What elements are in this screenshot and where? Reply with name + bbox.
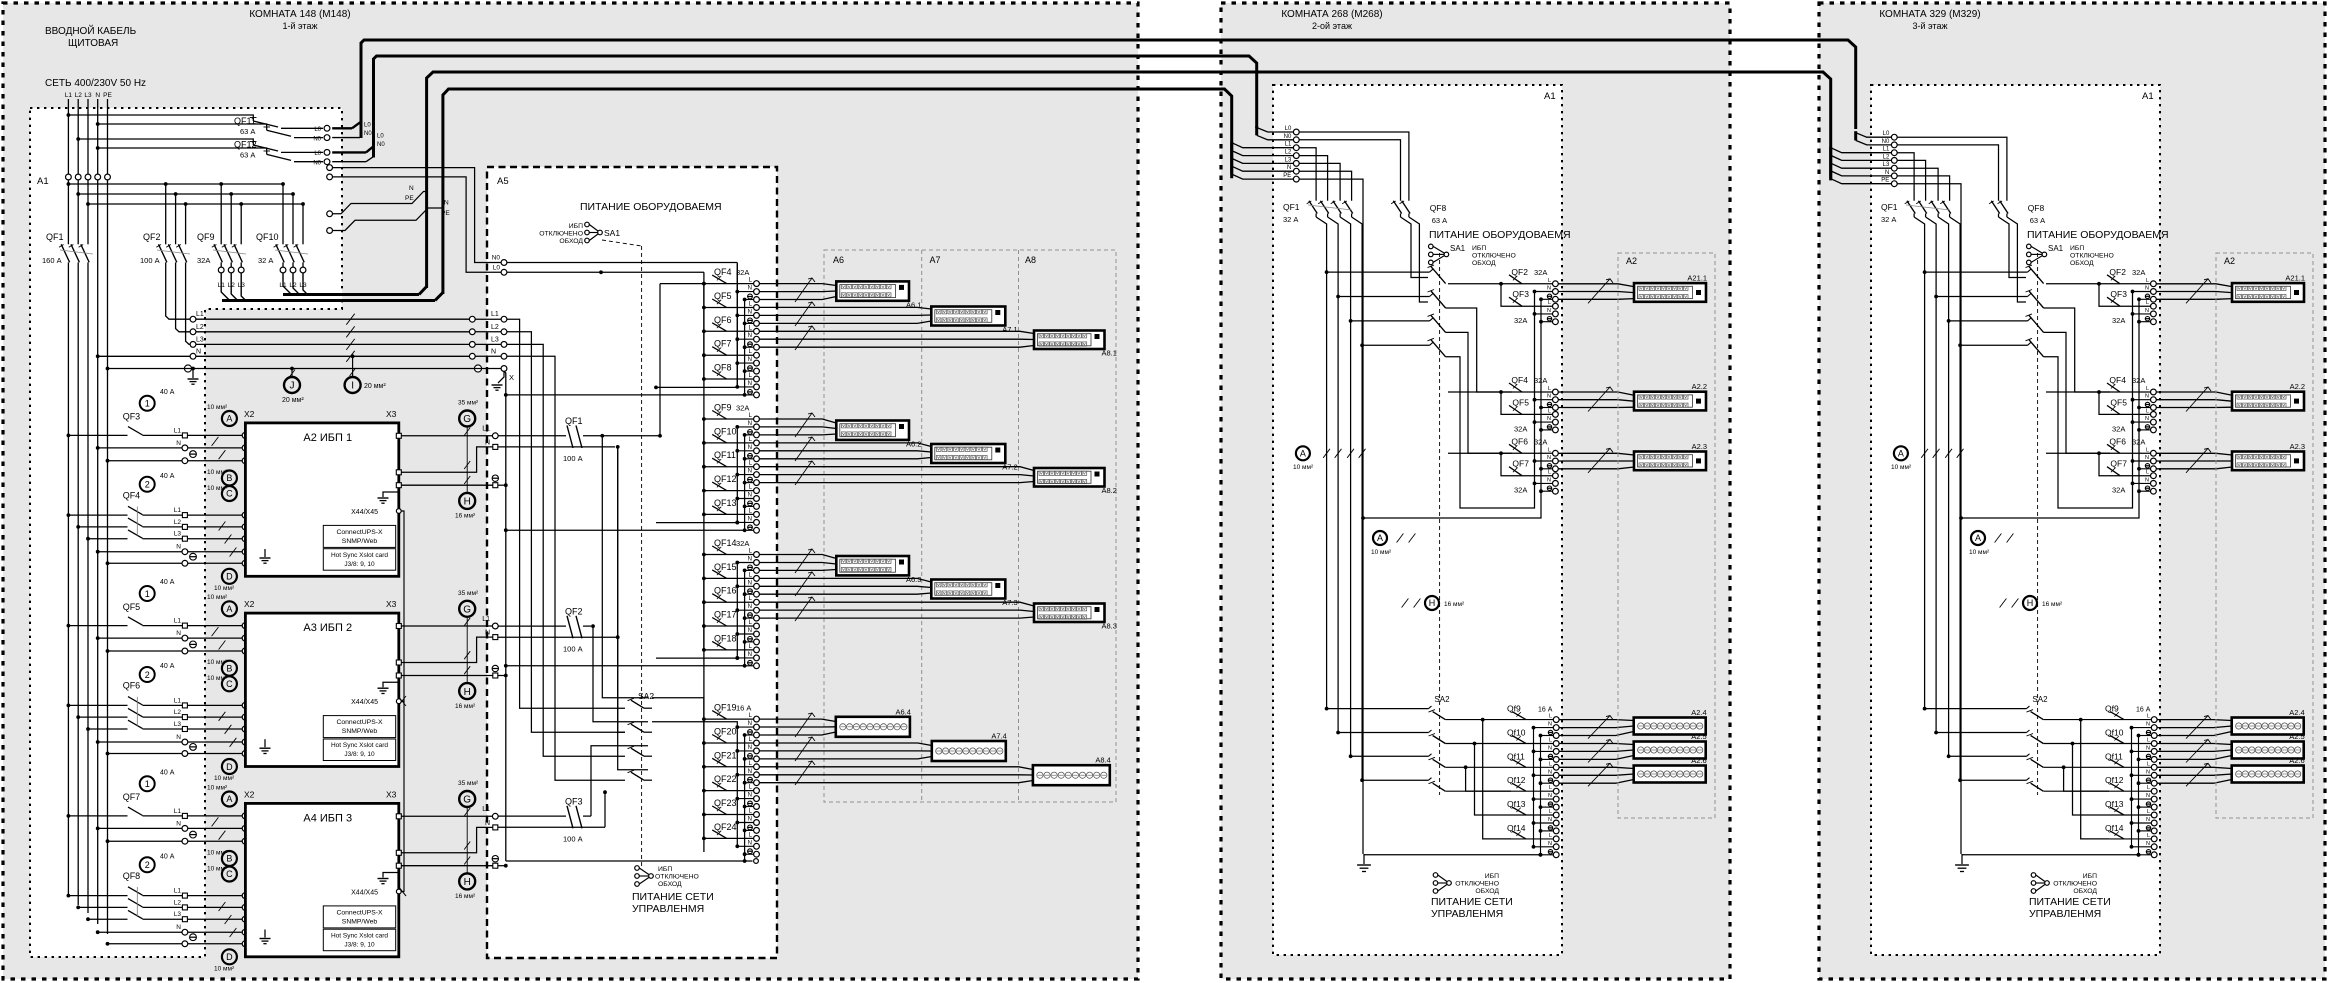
svg-text:160 А: 160 А [42, 256, 62, 265]
cable circle D group3 [222, 949, 237, 964]
cable circle B group3 [222, 851, 237, 866]
svg-text:N: N [748, 793, 752, 799]
svg-text:L1: L1 [1883, 147, 1890, 153]
cable circle D group1 [222, 569, 237, 584]
svg-text:L2: L2 [174, 899, 182, 906]
svg-text:QF6: QF6 [1511, 436, 1528, 446]
svg-text:QF13: QF13 [714, 498, 737, 508]
SA2 outputs to control group bus [652, 698, 704, 719]
svg-text:QF9: QF9 [197, 232, 215, 242]
svg-text:G: G [463, 795, 471, 806]
svg-text:1: 1 [145, 779, 150, 789]
N/PE bus stitches between groups [656, 386, 737, 388]
svg-text:63 А: 63 А [240, 127, 255, 136]
svg-text:N0: N0 [1882, 139, 1890, 145]
bus PE to A5 [108, 368, 185, 370]
svg-text:QF3: QF3 [2110, 289, 2127, 299]
room329 spare feeders from SA2 outputs [2064, 767, 2109, 791]
svg-text:16 А: 16 А [2136, 707, 2151, 714]
svg-text:2: 2 [145, 670, 150, 680]
svg-text:40 А: 40 А [160, 389, 175, 396]
room268 strips wires group1 [1558, 284, 1634, 287]
svg-text:10 мм²: 10 мм² [207, 594, 228, 601]
svg-text:В: В [226, 854, 232, 864]
cable designator I [352, 356, 354, 377]
svg-text:A8: A8 [1025, 255, 1036, 265]
svg-text:2: 2 [145, 860, 150, 870]
wire cable pair QF11 to riser A [332, 127, 352, 129]
svg-text:N: N [748, 469, 752, 475]
svg-text:QF7: QF7 [714, 339, 732, 349]
svg-text:Hot Sync Xslot card: Hot Sync Xslot card [331, 552, 388, 559]
svg-text:D: D [226, 572, 233, 582]
svg-text:L2: L2 [1883, 154, 1890, 160]
svg-text:QF3: QF3 [123, 412, 141, 422]
svg-text:QF4: QF4 [123, 490, 141, 500]
svg-text:ConnectUPS-X: ConnectUPS-X [336, 910, 383, 917]
svg-text:N: N [748, 309, 752, 315]
svg-text:N: N [748, 421, 752, 427]
bus L3 to A5 [196, 343, 470, 345]
terminals N PE jog wires joining risers [327, 211, 333, 217]
svg-text:N: N [1547, 286, 1551, 292]
selector circle 1 group 1 [140, 396, 155, 411]
svg-text:32А: 32А [1534, 268, 1547, 277]
UPS unit A4 [245, 803, 398, 956]
svg-text:20 мм²: 20 мм² [282, 397, 304, 404]
thick cable riser B to room 268 L0 N0 [374, 56, 1257, 158]
terminals to A5 N0 L0 [327, 165, 333, 171]
room329 socket strip A2.6 [2232, 766, 2304, 783]
svg-text:QF2: QF2 [1511, 267, 1528, 277]
svg-text:QF5: QF5 [2110, 397, 2127, 407]
svg-text:N: N [1548, 841, 1552, 847]
svg-text:D: D [226, 762, 233, 772]
svg-text:N: N [485, 439, 490, 446]
wires QF19 to strip A6.4 [759, 719, 836, 721]
svg-text:QF12: QF12 [714, 474, 737, 484]
svg-text:L0: L0 [364, 123, 371, 129]
svg-text:С: С [226, 679, 233, 689]
svg-text:QF1: QF1 [1283, 202, 1300, 212]
svg-text:ОТКЛЮЧЕНО: ОТКЛЮЧЕНО [655, 874, 699, 881]
svg-text:A8.1: A8.1 [1102, 349, 1117, 358]
svg-text:N: N [748, 817, 752, 823]
room 268 cabinet outline [1221, 3, 1730, 979]
svg-text:УПРАВЛЕНМЯ: УПРАВЛЕНМЯ [1431, 908, 1503, 920]
svg-text:16 А: 16 А [1538, 707, 1553, 714]
svg-text:40 А: 40 А [160, 854, 175, 861]
svg-text:PE: PE [103, 92, 112, 99]
svg-text:N0: N0 [364, 131, 372, 137]
svg-text:D: D [226, 952, 233, 962]
svg-text:L0: L0 [314, 151, 321, 157]
svg-text:N: N [1547, 455, 1551, 461]
wire L1 through breaker to UPS [68, 815, 127, 817]
room329 socket strip A2.5 [2232, 742, 2304, 759]
svg-text:L: L [2146, 447, 2149, 453]
QF10 output terminals L1 L2 L3 [282, 262, 284, 267]
room329 control group Qf9-Qf14 [2131, 728, 2133, 847]
svg-text:L: L [2147, 714, 2150, 720]
svg-text:N: N [176, 820, 181, 827]
room329 panel A1 boundary [1871, 85, 2160, 955]
svg-text:L: L [2147, 738, 2150, 744]
svg-text:32 А: 32 А [1283, 215, 1298, 224]
room268 SA1 mechanical link [1439, 253, 1441, 795]
svg-text:N: N [95, 92, 100, 99]
svg-text:32А: 32А [2112, 424, 2125, 433]
svg-text:QF7: QF7 [2110, 459, 2127, 469]
mechanical link SA1-SA2 [641, 246, 643, 866]
svg-text:N: N [2146, 793, 2150, 799]
svg-text:QF18: QF18 [714, 633, 737, 643]
svg-text:QF4: QF4 [1511, 375, 1528, 385]
phase tap buses to QF2 QF9 QF10 [68, 183, 283, 185]
wires QF6 to strip A8.1 [759, 331, 1034, 333]
vertical feeders from terminals [67, 180, 69, 245]
svg-text:QF10: QF10 [256, 232, 279, 242]
room329 QF8 outputs to bypass side [1999, 217, 2027, 278]
svg-text:N: N [1548, 817, 1552, 823]
svg-text:N: N [2146, 722, 2150, 728]
UPS comm card labels [323, 906, 395, 928]
svg-text:A8.2: A8.2 [1102, 486, 1117, 495]
svg-text:N: N [1547, 394, 1551, 400]
svg-text:ИБП: ИБП [658, 866, 672, 873]
svg-text:N0: N0 [377, 142, 385, 148]
svg-text:10 мм²: 10 мм² [1969, 549, 1990, 556]
room268 QF1 output verticals [1316, 217, 1327, 709]
svg-text:ОТКЛЮЧЕНО: ОТКЛЮЧЕНО [1455, 881, 1499, 888]
svg-text:N: N [176, 544, 181, 551]
room329 strips wires group1 [2156, 284, 2232, 287]
svg-text:QF6: QF6 [714, 315, 732, 325]
selector circle 2 group 3 [140, 857, 155, 872]
room268 bypass indicator [1433, 873, 1438, 878]
svg-text:32А: 32А [736, 268, 749, 277]
wire L1 through breaker to UPS [68, 625, 127, 627]
svg-text:ЩИТОВАЯ: ЩИТОВАЯ [68, 38, 118, 49]
svg-text:N: N [409, 185, 414, 192]
svg-text:А2.4: А2.4 [2289, 708, 2304, 717]
QF1 output verticals down to UPS feeders [67, 272, 69, 897]
svg-text:L: L [1549, 738, 1552, 744]
svg-text:QF3: QF3 [1512, 289, 1529, 299]
svg-text:10 мм²: 10 мм² [207, 404, 228, 411]
svg-text:QF4: QF4 [714, 267, 732, 277]
socket strip A8.4 16A [1033, 765, 1110, 785]
svg-text:SNMP/Web: SNMP/Web [342, 919, 378, 926]
svg-text:ВВОДНОЙ КАБЕЛЬ: ВВОДНОЙ КАБЕЛЬ [45, 24, 137, 37]
thick cable riser A to room 329 L0 N0 [361, 40, 1856, 138]
svg-text:100 А: 100 А [563, 834, 583, 843]
svg-text:ОТКЛЮЧЕНО: ОТКЛЮЧЕНО [539, 231, 583, 238]
svg-text:А: А [226, 604, 232, 614]
svg-text:100 А: 100 А [140, 256, 160, 265]
cable circle D group2 [222, 759, 237, 774]
svg-text:N: N [748, 286, 752, 292]
svg-text:А7.4: А7.4 [991, 732, 1006, 741]
svg-text:ОБХОД: ОБХОД [2073, 888, 2097, 895]
socket strip A8.3 [1034, 604, 1105, 623]
svg-text:L1: L1 [1285, 142, 1292, 148]
room268 cable circle A 10mm [1296, 446, 1310, 460]
svg-text:L: L [1548, 470, 1551, 476]
svg-text:N: N [2145, 394, 2149, 400]
svg-text:40 А: 40 А [160, 579, 175, 586]
L0 wire to group feed bus [507, 271, 704, 273]
room329 PE ground line [1962, 854, 2139, 856]
svg-text:L: L [1549, 809, 1552, 815]
svg-text:А: А [1975, 533, 1981, 543]
svg-text:ОБХОД: ОБХОД [559, 238, 583, 245]
svg-text:N: N [2145, 308, 2149, 314]
cable circle H group2 [466, 617, 468, 683]
room 148 cabinet outline [3, 3, 1138, 979]
room268 spare feeders from SA2 outputs [1466, 767, 1511, 791]
svg-text:L3: L3 [174, 531, 182, 538]
svg-text:L0: L0 [377, 134, 384, 140]
svg-text:J3/8: 9, 10: J3/8: 9, 10 [344, 561, 375, 568]
svg-text:QF2: QF2 [565, 606, 583, 616]
svg-text:QF8: QF8 [1430, 203, 1447, 213]
room268 panel A1 boundary [1273, 85, 1562, 955]
svg-text:QF3: QF3 [565, 796, 583, 806]
svg-text:А2 ИБП 1: А2 ИБП 1 [303, 432, 352, 444]
svg-text:2-ой этаж: 2-ой этаж [1312, 21, 1352, 31]
svg-text:ПИТАНИЕ ОБОРУДОВАЕМЯ: ПИТАНИЕ ОБОРУДОВАЕМЯ [2027, 229, 2169, 241]
svg-text:63 А: 63 А [1432, 216, 1447, 225]
wires QF9 to strip A6.2 [759, 419, 836, 423]
cable circle B group2 [222, 661, 237, 676]
svg-text:QF8: QF8 [714, 363, 732, 373]
svg-text:N: N [748, 604, 752, 610]
svg-text:L: L [1548, 278, 1551, 284]
svg-text:L: L [2146, 408, 2149, 414]
svg-text:A21.1: A21.1 [1687, 274, 1707, 283]
room268 switch SA1 [1429, 244, 1434, 249]
svg-text:L: L [1549, 785, 1552, 791]
svg-text:N: N [2145, 416, 2149, 422]
svg-text:L1: L1 [174, 808, 182, 815]
svg-text:32А: 32А [1514, 486, 1527, 495]
svg-text:ОБХОД: ОБХОД [1472, 260, 1496, 267]
selector circle 2 group 2 [140, 667, 155, 682]
room268 QF8 outputs to bypass side [1401, 217, 1429, 278]
socket strip A6.3 [836, 556, 909, 575]
svg-text:ПИТАНИЕ ОБОРУДОВАЕМЯ: ПИТАНИЕ ОБОРУДОВАЕМЯ [1429, 229, 1571, 241]
UPS off bypass indicator bottom A5 [635, 866, 640, 871]
cable circle A group2 [222, 601, 237, 616]
cable slashes on bus [346, 314, 354, 325]
svg-text:32А: 32А [1514, 316, 1527, 325]
svg-text:QF5: QF5 [123, 602, 141, 612]
svg-text:N: N [748, 580, 752, 586]
room268 cable circle H 16mm [1425, 596, 1439, 610]
wire PE to UPS [108, 460, 243, 462]
svg-text:PE: PE [405, 195, 414, 202]
room329 cable circle A2 10mm [1971, 531, 1985, 545]
room268 N distribution bus [1446, 292, 1535, 509]
svg-text:A2: A2 [1626, 256, 1637, 266]
svg-text:32А: 32А [2112, 316, 2125, 325]
svg-text:SA1: SA1 [2048, 244, 2064, 253]
room268 socket strip A2.3 [1634, 452, 1706, 471]
svg-text:N: N [748, 445, 752, 451]
room268 feeds to QF4..QF7 [1446, 308, 1512, 392]
socket strip A6.1 [836, 281, 909, 300]
svg-text:32А: 32А [2132, 268, 2145, 277]
svg-text:QF10: QF10 [714, 426, 737, 436]
svg-text:А4 ИБП 3: А4 ИБП 3 [303, 813, 352, 825]
wire PE to UPS [108, 650, 243, 652]
svg-text:N: N [748, 333, 752, 339]
svg-text:N: N [1548, 769, 1552, 775]
UPS output N with jog [396, 470, 401, 475]
svg-text:N: N [2146, 817, 2150, 823]
svg-text:10 мм²: 10 мм² [1891, 464, 1912, 471]
svg-text:Qf13: Qf13 [2105, 799, 2124, 809]
svg-text:L1: L1 [482, 806, 490, 813]
ground at left end of PE bus [192, 369, 194, 379]
svg-text:L: L [1548, 447, 1551, 453]
svg-text:ИБП: ИБП [1485, 873, 1499, 880]
panel A5 boundary [487, 167, 777, 958]
thick cable riser C to room 329 mains [427, 72, 1831, 288]
svg-text:QF21: QF21 [714, 750, 737, 760]
svg-text:L0: L0 [1883, 131, 1890, 137]
svg-text:32А: 32А [2112, 486, 2125, 495]
socket strip A6.4 16A [836, 717, 910, 737]
svg-text:ИБП: ИБП [2083, 873, 2097, 880]
svg-text:QF22: QF22 [714, 774, 737, 784]
svg-text:10 мм²: 10 мм² [214, 775, 235, 782]
svg-text:N: N [748, 557, 752, 563]
svg-text:L0: L0 [493, 265, 501, 272]
svg-text:QF6: QF6 [2109, 436, 2126, 446]
svg-text:L1: L1 [491, 311, 499, 318]
svg-text:J: J [290, 381, 295, 392]
svg-text:L: L [2146, 300, 2149, 306]
UPS unit A3 [245, 613, 398, 766]
svg-text:ОБХОД: ОБХОД [2070, 260, 2094, 267]
svg-text:X44/X45: X44/X45 [351, 890, 378, 897]
svg-text:X3: X3 [386, 599, 397, 609]
socket strip A7.3 [931, 580, 1005, 599]
svg-text:N: N [748, 652, 752, 658]
svg-text:SNMP/Web: SNMP/Web [342, 538, 378, 545]
svg-text:16 А: 16 А [736, 704, 751, 713]
svg-text:N: N [485, 630, 490, 637]
svg-text:Qf11: Qf11 [2105, 751, 2123, 761]
svg-text:QF2: QF2 [2109, 267, 2126, 277]
UPS output PE [396, 483, 401, 488]
svg-text:40 А: 40 А [160, 663, 175, 670]
room268 socket strip A2.1 [1634, 283, 1706, 302]
svg-text:QF6: QF6 [123, 681, 141, 691]
cable circle C group3 [222, 867, 237, 882]
svg-text:QF14: QF14 [714, 538, 737, 548]
svg-text:L3: L3 [491, 337, 499, 344]
svg-text:X: X [509, 373, 514, 382]
svg-text:Н: Н [1429, 598, 1436, 608]
svg-text:Qf11: Qf11 [1507, 751, 1525, 761]
QF1 N feed vertical [498, 446, 615, 448]
svg-text:L1: L1 [174, 427, 182, 434]
svg-text:32А: 32А [736, 404, 749, 413]
svg-text:А: А [226, 414, 232, 424]
svg-text:А: А [1898, 449, 1904, 459]
svg-text:A2.2: A2.2 [1692, 382, 1707, 391]
bus L1 to A5 [196, 318, 470, 320]
QF2 outputs to A5 feed bus [166, 262, 193, 319]
svg-text:100 А: 100 А [563, 454, 583, 463]
svg-text:10 мм²: 10 мм² [207, 659, 228, 666]
wire PE to UPS [108, 840, 243, 842]
PE collector vertical [504, 371, 506, 861]
svg-text:Н: Н [464, 877, 471, 888]
bus N to A5 [98, 355, 191, 357]
svg-text:16 мм²: 16 мм² [455, 893, 476, 900]
svg-text:N: N [196, 349, 201, 356]
svg-text:N: N [176, 924, 181, 931]
room268 control group Qf9-Qf14 [1533, 728, 1535, 847]
room329 socket strip A2.3 [2232, 452, 2304, 471]
svg-text:L1: L1 [174, 697, 182, 704]
svg-text:N0: N0 [313, 161, 321, 167]
svg-text:L2: L2 [1285, 150, 1292, 156]
svg-text:Hot Sync Xslot card: Hot Sync Xslot card [331, 742, 388, 749]
svg-text:N: N [748, 381, 752, 387]
svg-text:10 мм²: 10 мм² [214, 966, 235, 973]
UPS ground stub [383, 678, 399, 687]
svg-text:32А: 32А [197, 256, 210, 265]
svg-text:L: L [1549, 714, 1552, 720]
wires QF20 to strip A7.4 [759, 743, 932, 746]
svg-text:32А: 32А [1514, 424, 1527, 433]
svg-text:В: В [226, 473, 232, 483]
svg-text:Qf10: Qf10 [1507, 728, 1526, 738]
svg-text:A5: A5 [497, 176, 509, 187]
wire L1 through breaker to UPS [68, 434, 127, 436]
room329 switch SA1 [2027, 244, 2032, 249]
svg-text:ОТКЛЮЧЕНО: ОТКЛЮЧЕНО [2070, 253, 2114, 260]
UPS output L1 [396, 433, 401, 438]
svg-text:L1: L1 [174, 888, 182, 895]
svg-text:100 А: 100 А [563, 644, 583, 653]
svg-text:L: L [2147, 809, 2150, 815]
svg-text:N: N [2145, 477, 2149, 483]
svg-text:N: N [444, 200, 449, 207]
svg-text:A21.1: A21.1 [2285, 274, 2305, 283]
room268 PE ground line [1364, 854, 1541, 856]
terminal N0 of A5 [501, 260, 507, 266]
svg-text:N: N [1287, 165, 1291, 171]
svg-text:10 мм²: 10 мм² [214, 585, 235, 592]
svg-text:N: N [2146, 745, 2150, 751]
svg-text:N: N [748, 516, 752, 522]
svg-text:32 А: 32 А [258, 256, 273, 265]
svg-text:L3: L3 [84, 92, 92, 99]
svg-text:L: L [2146, 278, 2149, 284]
svg-text:QF5: QF5 [714, 291, 732, 301]
QF10 merge into cable bus to room 329 [283, 273, 292, 295]
selector circle 1 group 2 [140, 586, 155, 601]
svg-text:N: N [2145, 286, 2149, 292]
svg-text:L0: L0 [314, 127, 321, 133]
svg-text:С: С [226, 869, 233, 879]
